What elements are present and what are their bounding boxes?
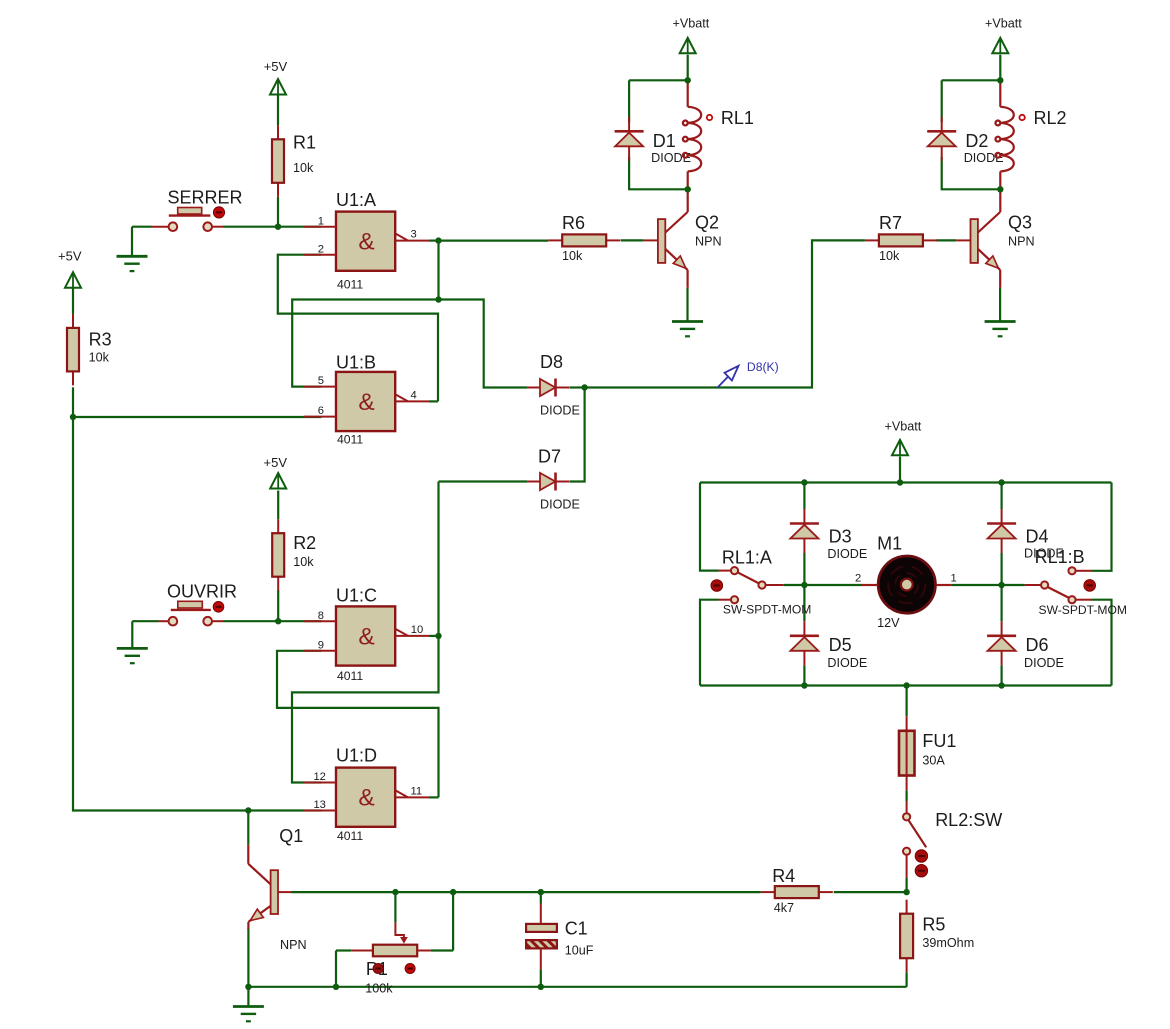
svg-text:R4: R4 bbox=[772, 866, 795, 886]
svg-text:D6: D6 bbox=[1026, 635, 1049, 655]
svg-text:2: 2 bbox=[855, 573, 861, 585]
svg-text:4: 4 bbox=[411, 389, 417, 401]
svg-text:SW-SPDT-MOM: SW-SPDT-MOM bbox=[1039, 603, 1127, 617]
svg-text:SW-SPDT-MOM: SW-SPDT-MOM bbox=[723, 603, 811, 617]
svg-text:RL1:B: RL1:B bbox=[1035, 547, 1085, 567]
svg-text:4011: 4011 bbox=[337, 278, 363, 292]
svg-text:+Vbatt: +Vbatt bbox=[673, 16, 710, 30]
svg-text:Q1: Q1 bbox=[279, 826, 303, 846]
svg-text:NPN: NPN bbox=[280, 938, 307, 952]
svg-text:NPN: NPN bbox=[1008, 235, 1035, 249]
svg-text:D7: D7 bbox=[538, 447, 561, 467]
svg-text:OUVRIR: OUVRIR bbox=[167, 582, 237, 602]
svg-text:10k: 10k bbox=[293, 161, 314, 175]
svg-text:6: 6 bbox=[318, 405, 324, 417]
svg-text:+5V: +5V bbox=[264, 59, 288, 74]
svg-text:+Vbatt: +Vbatt bbox=[985, 16, 1022, 30]
svg-text:D8: D8 bbox=[540, 352, 563, 372]
svg-text:U1:C: U1:C bbox=[336, 586, 377, 606]
svg-text:11: 11 bbox=[411, 785, 423, 797]
svg-text:RL2: RL2 bbox=[1034, 108, 1067, 128]
svg-text:100k: 100k bbox=[365, 981, 393, 995]
svg-text:R7: R7 bbox=[879, 213, 902, 233]
svg-text:R3: R3 bbox=[89, 330, 112, 350]
svg-text:D2: D2 bbox=[965, 131, 988, 151]
svg-text:U1:D: U1:D bbox=[336, 746, 377, 766]
svg-text:13: 13 bbox=[313, 799, 325, 811]
svg-text:5: 5 bbox=[318, 375, 324, 387]
svg-text:C1: C1 bbox=[565, 919, 588, 939]
svg-text:+5V: +5V bbox=[58, 249, 82, 264]
svg-text:RL1: RL1 bbox=[721, 108, 754, 128]
svg-text:D5: D5 bbox=[829, 635, 852, 655]
svg-text:4k7: 4k7 bbox=[774, 901, 794, 915]
svg-text:10k: 10k bbox=[562, 249, 583, 263]
svg-text:30A: 30A bbox=[922, 754, 945, 768]
svg-text:10k: 10k bbox=[879, 249, 900, 263]
svg-text:10k: 10k bbox=[293, 555, 314, 569]
svg-text:Q2: Q2 bbox=[695, 212, 719, 232]
svg-text:DIODE: DIODE bbox=[540, 403, 580, 417]
svg-text:10uF: 10uF bbox=[565, 944, 594, 958]
svg-text:FU1: FU1 bbox=[922, 731, 956, 751]
svg-text:2: 2 bbox=[318, 243, 324, 255]
svg-text:R5: R5 bbox=[922, 914, 945, 934]
svg-text:4011: 4011 bbox=[337, 669, 363, 683]
svg-text:&: & bbox=[358, 389, 374, 416]
svg-text:&: & bbox=[358, 785, 374, 812]
svg-text:9: 9 bbox=[318, 639, 324, 651]
svg-text:U1:B: U1:B bbox=[336, 353, 376, 373]
svg-text:M1: M1 bbox=[877, 534, 902, 554]
svg-text:D8(K): D8(K) bbox=[747, 360, 779, 374]
svg-text:DIODE: DIODE bbox=[827, 656, 867, 670]
svg-text:+5V: +5V bbox=[264, 455, 288, 470]
svg-text:R6: R6 bbox=[562, 213, 585, 233]
svg-text:10: 10 bbox=[411, 624, 423, 636]
svg-text:1: 1 bbox=[951, 573, 957, 585]
svg-text:Q3: Q3 bbox=[1008, 212, 1032, 232]
svg-text:NPN: NPN bbox=[695, 235, 722, 249]
svg-text:4011: 4011 bbox=[337, 432, 363, 446]
svg-text:3: 3 bbox=[411, 229, 417, 241]
svg-text:&: & bbox=[358, 229, 374, 256]
svg-text:SERRER: SERRER bbox=[168, 187, 243, 207]
svg-text:DIODE: DIODE bbox=[1024, 656, 1064, 670]
svg-text:1: 1 bbox=[318, 215, 324, 227]
svg-text:R1: R1 bbox=[293, 133, 316, 153]
svg-text:8: 8 bbox=[318, 610, 324, 622]
svg-text:D3: D3 bbox=[829, 526, 852, 546]
svg-text:RL1:A: RL1:A bbox=[722, 547, 772, 567]
svg-text:DIODE: DIODE bbox=[540, 497, 580, 511]
svg-text:U1:A: U1:A bbox=[336, 190, 376, 210]
svg-text:12: 12 bbox=[313, 771, 325, 783]
svg-text:10k: 10k bbox=[89, 351, 110, 365]
svg-text:DIODE: DIODE bbox=[827, 547, 867, 561]
svg-text:D4: D4 bbox=[1026, 526, 1049, 546]
svg-text:12V: 12V bbox=[877, 616, 900, 630]
svg-text:RL2:SW: RL2:SW bbox=[935, 810, 1002, 830]
svg-text:R2: R2 bbox=[293, 533, 316, 553]
svg-text:D1: D1 bbox=[653, 131, 676, 151]
svg-text:39mOhm: 39mOhm bbox=[922, 936, 974, 950]
svg-text:+Vbatt: +Vbatt bbox=[885, 420, 922, 434]
svg-text:4011: 4011 bbox=[337, 829, 363, 843]
svg-text:&: & bbox=[358, 623, 374, 650]
